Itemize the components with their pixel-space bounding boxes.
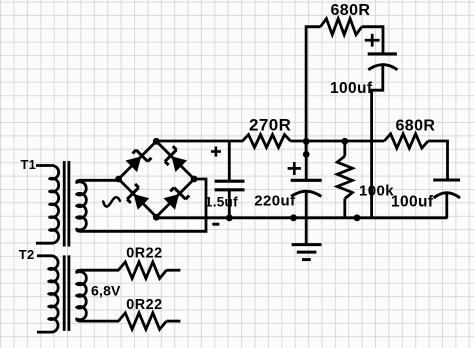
node dot rail left of ground [290,214,297,221]
transformer T1 primary winding [36,166,59,244]
resistor 270R [243,135,291,148]
node dot wire at 100k top [341,138,348,145]
svg-text:100k: 100k [359,183,394,200]
resistor 270R label [249,116,291,135]
wire 100uf top down to bottom rail [372,65,383,218]
resistor 680R right label [396,118,436,135]
bridge diode D1 (left node to top node) [126,150,152,172]
bridge edge wire top-right [156,141,194,179]
resistor 100k [337,141,352,218]
capacitor 100uf right label [391,194,434,211]
capacitor 100uf top [368,54,398,70]
resistor 0R22 bottom label [126,297,162,313]
ground [292,218,322,260]
transformer T1 core [64,161,69,247]
node dot bridge top [153,138,160,145]
bridge edge wire bottom-right [156,179,194,217]
label 6,8V [91,282,121,298]
node dot bridge bottom [153,214,160,221]
capacitor 220uf plus sign [288,162,301,175]
svg-text:100uf: 100uf [330,80,373,97]
node dot below 220uf top [303,151,310,158]
svg-text:100uf: 100uf [391,194,434,211]
capacitor 1.5uf [215,140,245,218]
node dot rail at 1.5uf [226,214,233,221]
wire 270R to 680R [291,140,385,143]
bridge diode D2 (right node to top node) [165,146,187,172]
resistor 0R22 bottom [118,313,180,329]
resistor 680R top [321,19,362,35]
svg-text:0R22: 0R22 [126,246,162,262]
resistor 680R right [384,134,428,148]
transformer T2 label [19,247,35,262]
wire 680R to right 100uf [428,141,447,180]
node dot wire at 220uf top [303,138,310,145]
node dot bridge left [115,176,122,183]
wire top 680R to 100uf top [362,27,383,54]
bridge diode D3 (bottom node to left node) [127,184,149,210]
transformer T1 label [21,157,37,172]
capacitor 100uf right [433,180,460,218]
capacitor 220uf label [254,192,296,209]
wire bridge top node to 270R [156,140,243,143]
bridge edge wire left-top [119,141,157,179]
resistor 0R22 top label [126,246,162,262]
transformer T1 secondary winding [77,180,119,231]
capacitor 1.5uf label [205,194,238,209]
capacitor 1.5uf plus sign [211,147,221,157]
wire bridge right node to transformer return [119,179,206,231]
bridge edge wire left-bottom [119,179,157,217]
svg-text:220uf: 220uf [254,192,296,209]
resistor 680R top label [331,2,371,19]
svg-text:6,8V: 6,8V [91,282,121,298]
transformer T2 core [64,255,69,331]
transformer T2 primary winding [37,256,58,332]
node dot bridge right [191,176,198,183]
capacitor 100uf top label [330,80,373,97]
svg-text:T1: T1 [21,157,37,172]
resistor 100k label [359,183,394,200]
resistor 0R22 top [118,262,180,278]
capacitor 220uf [291,141,322,218]
svg-text:1.5uf: 1.5uf [205,194,238,209]
svg-text:270R: 270R [249,116,291,135]
transformer T2 secondary winding [77,270,119,321]
node dot rail near 100k [354,214,361,221]
bridge diode D4 (bottom node to right node) [163,188,189,210]
svg-text:0R22: 0R22 [126,297,162,313]
wire left lead of top 680R down to main wire [306,27,320,155]
capacitor 100uf top plus sign [365,34,380,47]
wire bottom rail [156,216,447,219]
capacitor 1.5uf minus sign [212,223,219,226]
svg-text:T2: T2 [19,247,35,262]
ac sine symbol [103,197,120,206]
